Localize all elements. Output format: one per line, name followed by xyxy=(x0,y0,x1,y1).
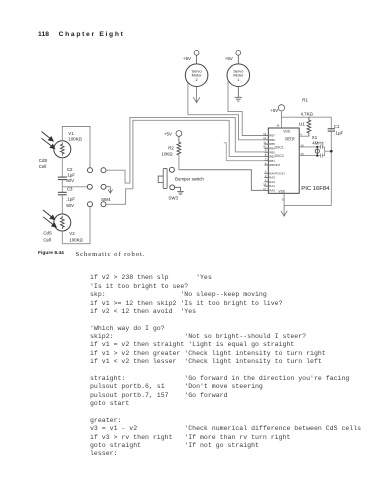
ground arrow at SW4 middle terminal xyxy=(106,187,113,193)
svg-text:Cell: Cell xyxy=(43,238,51,243)
svg-text:10KΩ: 10KΩ xyxy=(162,152,174,157)
wire SW4 top terminal to PIC pin 9 xyxy=(106,118,264,184)
svg-text:PIC 16F84: PIC 16F84 xyxy=(301,186,330,192)
wire C2 to C3 junction xyxy=(61,180,63,193)
photocell V2 xyxy=(54,214,71,231)
ground rail right side xyxy=(330,131,332,206)
svg-text:U1: U1 xyxy=(299,122,305,128)
pin 5 VSS stub xyxy=(283,193,285,205)
svg-text:50V: 50V xyxy=(66,203,74,208)
svg-text:+5V: +5V xyxy=(270,108,278,113)
connector terminal left bottom xyxy=(88,202,93,207)
pin 16 OSC1 stub xyxy=(299,146,317,148)
+5V supply of PIC VDD xyxy=(278,105,284,111)
label CdS Cell (V2) xyxy=(43,231,52,243)
svg-text:V2: V2 xyxy=(69,231,75,236)
svg-text:16: 16 xyxy=(300,143,304,147)
svg-text:14: 14 xyxy=(276,124,280,128)
svg-text:.1μF: .1μF xyxy=(334,130,343,135)
svg-text:V1: V1 xyxy=(68,131,74,136)
wire SW3 bottom terminal to ground xyxy=(175,187,181,191)
svg-text:RA0: RA0 xyxy=(269,189,275,193)
switch SW4 terminal bottom xyxy=(101,202,106,207)
wire servo motor 1 signal to PIC pin 13 xyxy=(228,80,264,135)
ground arrow of servo motor 2 xyxy=(193,87,200,103)
svg-text:OSC2: OSC2 xyxy=(275,154,284,158)
svg-text:1: 1 xyxy=(237,77,239,82)
svg-text:CdS: CdS xyxy=(43,231,52,236)
bumper switch SW3 plunger body xyxy=(158,169,167,189)
svg-text:100KΩ: 100KΩ xyxy=(69,238,83,243)
switch SW4 terminal top xyxy=(101,168,106,173)
svg-text:.1μF: .1μF xyxy=(66,173,75,178)
light arrows into V2 xyxy=(43,210,56,227)
junction dots at X1 xyxy=(316,146,332,157)
svg-text:VDD: VDD xyxy=(283,129,291,133)
svg-text:17: 17 xyxy=(263,187,267,191)
wire stub to PIC pin 7 xyxy=(224,143,265,161)
resistor R1 xyxy=(307,117,311,136)
svg-text:+5V: +5V xyxy=(225,56,233,61)
svg-text:15: 15 xyxy=(300,152,304,156)
PIC left pin numbers xyxy=(263,132,267,191)
ground symbol of servo motor 1 xyxy=(235,87,242,102)
wire bumper junction to PIC pin 17 xyxy=(179,170,265,191)
connector terminal left top xyxy=(88,168,93,173)
wire V1 bottom to C2 xyxy=(61,158,63,177)
svg-text:4.7KΩ: 4.7KΩ xyxy=(301,112,314,117)
servo motor 2 xyxy=(185,64,208,87)
svg-text:SW3: SW3 xyxy=(168,196,178,201)
svg-text:R1: R1 xyxy=(302,98,308,103)
op IC U1 PIC 16F84 body xyxy=(268,128,299,193)
photocell V1 xyxy=(54,141,71,158)
+5V supply of servo motor 1 xyxy=(236,50,241,64)
svg-text:50V: 50V xyxy=(66,178,74,183)
svg-text:Cell: Cell xyxy=(39,164,47,169)
wire top of sensor box xyxy=(62,127,90,168)
wire C3 to V2 xyxy=(61,195,63,215)
node stub junction to terminal xyxy=(62,186,87,188)
crystal X1 4MHz xyxy=(315,147,319,156)
svg-text:Bumper switch: Bumper switch xyxy=(175,176,204,181)
pin 4 MCLR stub and wire to R1 xyxy=(299,135,309,137)
light arrows into V1 xyxy=(42,132,55,149)
resistor R2 xyxy=(177,142,181,155)
svg-text:C3: C3 xyxy=(67,187,73,192)
svg-text:VSS: VSS xyxy=(278,190,285,194)
ground symbol SW3 xyxy=(177,191,183,194)
svg-text:OSC1: OSC1 xyxy=(275,145,284,149)
svg-text:4MHz: 4MHz xyxy=(312,141,323,146)
svg-text:X1: X1 xyxy=(312,135,318,140)
+5V supply of R2 xyxy=(176,131,182,143)
svg-text:100KΩ: 100KΩ xyxy=(68,137,82,142)
+5V supply of servo motor 2 xyxy=(194,50,199,64)
svg-text:MCLR: MCLR xyxy=(285,137,295,141)
bumper switch SW3 terminal top xyxy=(169,167,174,172)
wire VSS to ground rail xyxy=(284,205,331,207)
wire servo motor 2 signal to PIC pin 12 xyxy=(188,83,265,140)
bumper switch SW3 terminal bottom xyxy=(170,185,175,190)
PIC left pins group xyxy=(264,136,268,191)
switch SW4 terminal middle xyxy=(101,184,106,189)
ground arrow below VSS xyxy=(281,206,287,217)
label CdS Cell (V1) xyxy=(39,158,48,169)
pin 15 OSC2 stub xyxy=(299,155,317,157)
svg-text:C1: C1 xyxy=(334,124,340,129)
capacitor C2 xyxy=(58,177,67,180)
servo motor 1 xyxy=(227,64,250,87)
svg-text:2: 2 xyxy=(196,77,198,82)
wire SW4 bottom terminal to PIC pin 8 xyxy=(106,120,264,204)
svg-text:+5V: +5V xyxy=(183,56,191,61)
svg-text:R2: R2 xyxy=(168,145,174,150)
wire bottom of sensor box xyxy=(62,207,90,244)
svg-text:RB0/INT: RB0/INT xyxy=(269,163,280,167)
svg-text:SW4: SW4 xyxy=(101,197,111,202)
wire R2 bottom to bumper junction xyxy=(178,155,180,170)
svg-text:+5V: +5V xyxy=(164,132,172,137)
label V2 100K xyxy=(69,231,83,243)
label V1 100K xyxy=(68,131,82,142)
svg-text:C2: C2 xyxy=(67,167,73,172)
PIC left pin names xyxy=(269,134,284,193)
connector terminal left middle xyxy=(87,184,92,189)
capacitor C1 xyxy=(328,129,335,131)
svg-text:.1μF: .1μF xyxy=(66,197,75,202)
svg-text:CdS: CdS xyxy=(39,158,48,163)
wire +5V rail to R1 and C1 xyxy=(282,117,332,129)
wire +5V to VDD pin 14 xyxy=(281,111,283,128)
capacitor C3 xyxy=(58,192,67,195)
